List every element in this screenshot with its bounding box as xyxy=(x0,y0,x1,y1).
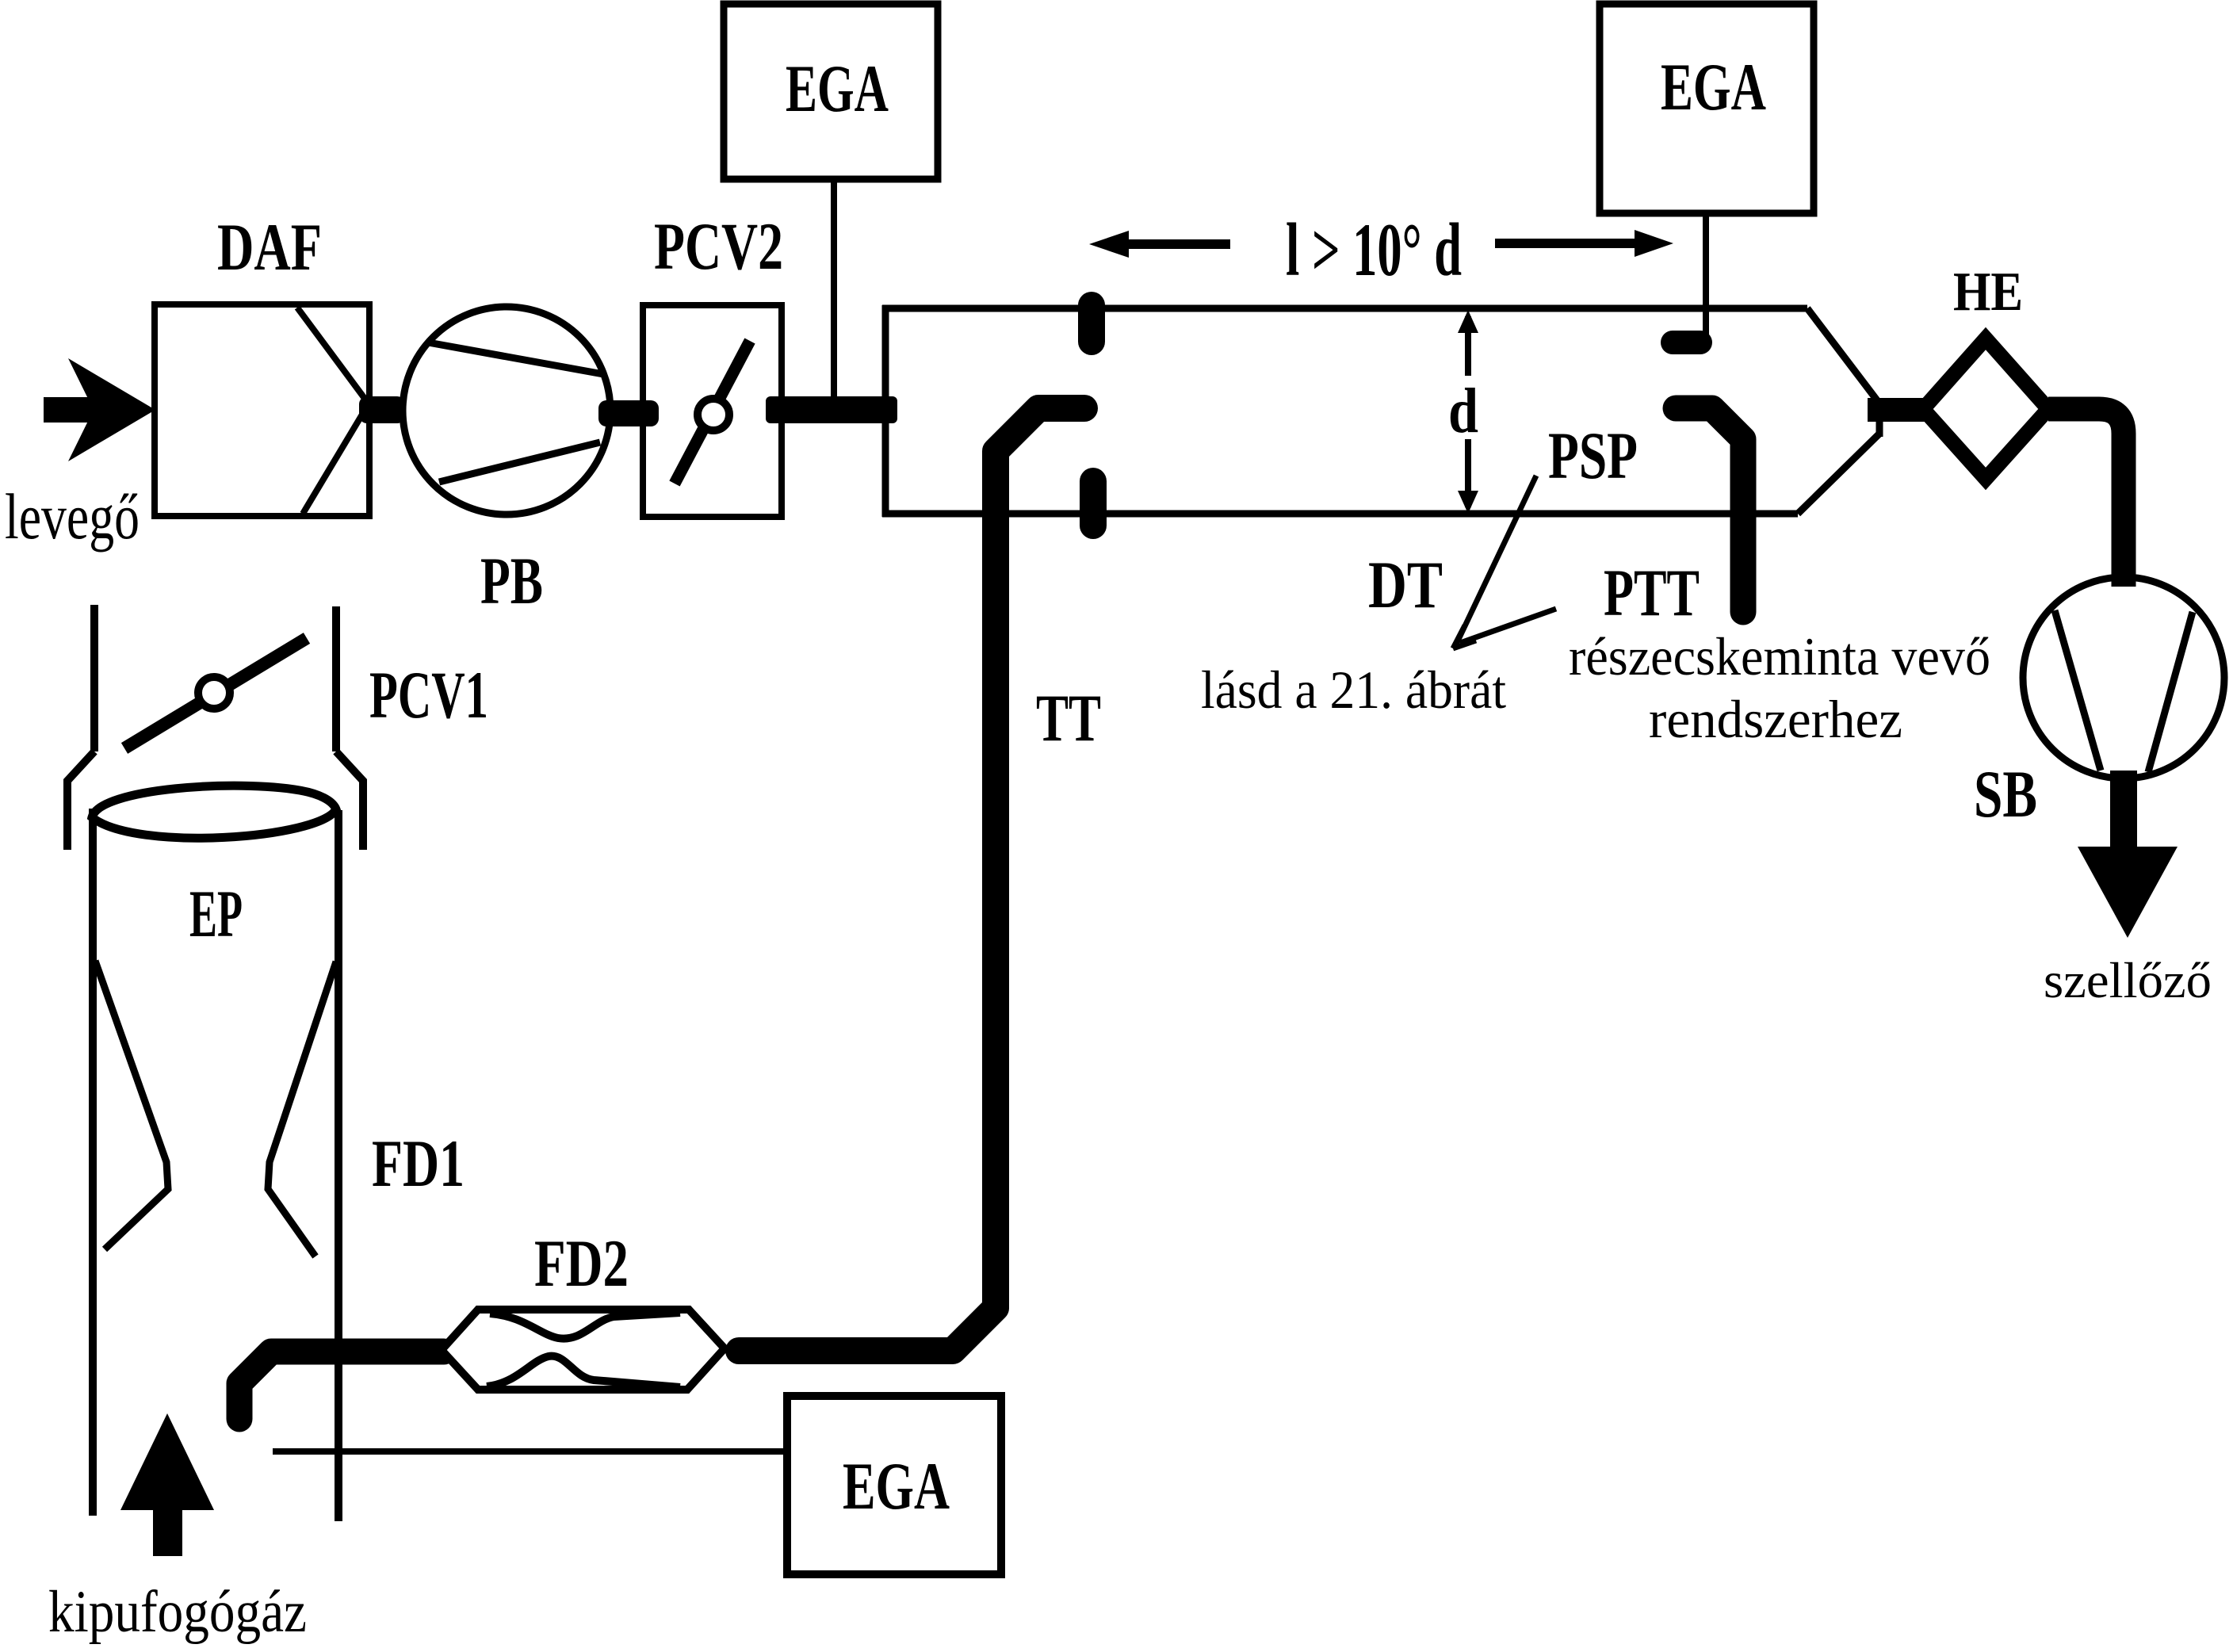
EP inner tube mouth (lens) xyxy=(92,786,336,838)
wire EGA3 sample line xyxy=(273,1448,787,1455)
wire PCV2-tunnel (dilution air) xyxy=(766,396,897,423)
svg-text:DAF: DAF xyxy=(217,210,322,285)
valve PCV2 xyxy=(643,305,782,517)
flow divider FD1 (hourglass in EP) xyxy=(95,961,168,1249)
svg-text:EGA: EGA xyxy=(843,1449,950,1524)
exhaust sampling elbow in EP xyxy=(239,1352,444,1419)
svg-text:levegő: levegő xyxy=(5,480,140,553)
heat exchanger HE xyxy=(1923,338,2048,479)
svg-text:EGA: EGA xyxy=(1661,50,1766,124)
wire DAF-PB xyxy=(359,396,405,423)
svg-text:PSP: PSP xyxy=(1548,419,1638,493)
wire HE-SB xyxy=(2048,409,2124,587)
valve PCV1 xyxy=(124,638,307,748)
svg-text:FD1: FD1 xyxy=(372,1126,465,1201)
svg-text:EGA: EGA xyxy=(786,52,889,126)
svg-text:PCV2: PCV2 xyxy=(654,209,783,284)
svg-text:kipufogógáz: kipufogógáz xyxy=(48,1579,307,1645)
wire EGA2 sample line xyxy=(1703,213,1709,337)
svg-text:DT: DT xyxy=(1368,548,1443,622)
svg-text:PTT: PTT xyxy=(1604,556,1700,630)
svg-text:részecskeminta vevő: részecskeminta vevő xyxy=(1569,626,1990,686)
dimension arrow left (l) xyxy=(1089,231,1230,258)
wire tunnel-HE xyxy=(1868,398,1926,422)
svg-text:l > 10° d: l > 10° d xyxy=(1286,208,1462,292)
box EGA3 xyxy=(787,1396,1001,1574)
air inlet arrow (levegő) xyxy=(44,358,155,461)
dimension d arrows xyxy=(1458,310,1478,514)
wire PB-PCV2 xyxy=(598,400,659,426)
svg-text:PB: PB xyxy=(480,544,543,618)
svg-text:d: d xyxy=(1448,377,1478,446)
dilution tunnel DT xyxy=(882,305,1879,517)
vent arrow xyxy=(2078,771,2178,938)
particle sampling probe PSP / transfer tube PTT xyxy=(1676,408,1743,612)
flow divider FD2 venturi xyxy=(442,1310,725,1390)
wire EGA1 sample line xyxy=(831,179,837,400)
filter DAF xyxy=(155,304,369,516)
pointer lines to figure note xyxy=(1453,476,1556,648)
svg-text:EP: EP xyxy=(189,877,243,951)
exhaust pipe EP main walls xyxy=(89,809,97,1516)
svg-text:TT: TT xyxy=(1036,681,1101,755)
exhaust gas inlet arrow xyxy=(120,1413,214,1556)
EGA2 sample probe dash xyxy=(1661,331,1712,354)
svg-text:rendszerhez: rendszerhez xyxy=(1649,689,1902,749)
dimension arrow right (l) xyxy=(1495,230,1673,257)
svg-text:lásd a 21. ábrát: lásd a 21. ábrát xyxy=(1201,660,1506,720)
flange tick top xyxy=(1078,292,1105,355)
box EGA1 xyxy=(724,4,938,179)
pump PB xyxy=(403,307,610,514)
svg-text:szellőző: szellőző xyxy=(2044,953,2212,1008)
svg-text:SB: SB xyxy=(1974,757,2037,832)
svg-text:FD2: FD2 xyxy=(534,1226,629,1301)
svg-text:PCV1: PCV1 xyxy=(369,658,488,732)
box EGA2 xyxy=(1600,4,1814,213)
exhaust pipe EP upper tube xyxy=(67,605,363,850)
transfer tube TT xyxy=(739,408,1084,1351)
flange tick bottom xyxy=(1080,468,1107,539)
blower SB xyxy=(2023,577,2224,778)
svg-text:HE: HE xyxy=(1953,262,2023,323)
